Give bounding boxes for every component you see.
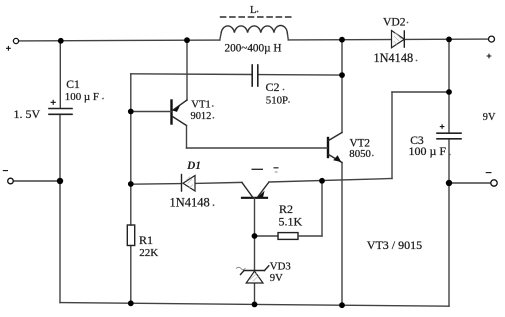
- svg-text:100 µ F: 100 µ F: [409, 144, 447, 158]
- svg-text:VT3 / 9015: VT3 / 9015: [367, 238, 422, 252]
- svg-text:200~400µ H: 200~400µ H: [225, 43, 282, 55]
- svg-text:1N4148: 1N4148: [374, 51, 414, 65]
- svg-text:VD2: VD2: [383, 15, 406, 28]
- svg-text:C1: C1: [66, 78, 80, 91]
- svg-text:1. 5V: 1. 5V: [14, 107, 41, 121]
- svg-text:VD3: VD3: [270, 260, 291, 272]
- svg-text:L: L: [250, 5, 256, 16]
- svg-text:VT1: VT1: [191, 100, 210, 111]
- svg-text:22K: 22K: [139, 247, 158, 259]
- svg-text:R1: R1: [139, 233, 153, 247]
- svg-text:9V: 9V: [270, 273, 283, 284]
- svg-text:9V: 9V: [483, 112, 496, 123]
- svg-text:C2: C2: [266, 80, 280, 94]
- svg-text:9012: 9012: [191, 111, 212, 122]
- svg-text:5.1K: 5.1K: [279, 215, 303, 229]
- svg-text:8050: 8050: [349, 148, 371, 160]
- svg-text:100 µ F: 100 µ F: [65, 91, 99, 103]
- svg-text:510P: 510P: [266, 94, 288, 106]
- svg-text:1N4148: 1N4148: [170, 195, 210, 209]
- svg-text:D1: D1: [186, 160, 201, 172]
